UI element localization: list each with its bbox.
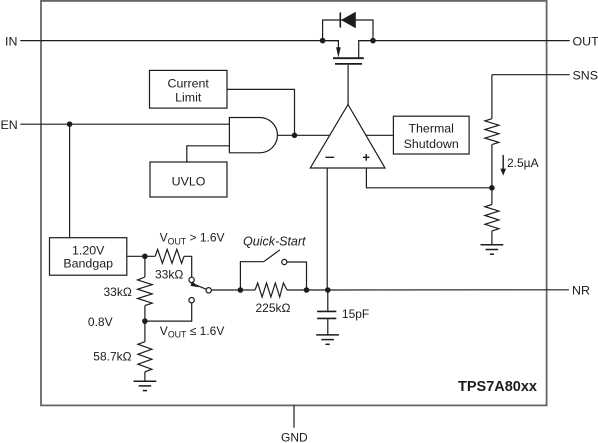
svg-text:0.8V: 0.8V (88, 315, 113, 329)
current source arrow 2.5uA (502, 155, 504, 170)
node QS left (238, 287, 244, 293)
pin IN (20, 40, 40, 42)
svg-text:IN: IN (5, 35, 17, 49)
resistor 33k upper (VOUT>1.6V path) (155, 249, 184, 263)
switch Quick-Start blade (264, 250, 280, 262)
wire to tap (491, 145, 493, 188)
svg-text:15pF: 15pF (342, 307, 369, 321)
wire body-diode left leg (323, 20, 373, 41)
node QS right (304, 287, 310, 293)
wire EN to AND gate input 1 (40, 123, 229, 125)
wire pole to NR node (212, 289, 241, 291)
svg-text:Current: Current (168, 76, 210, 90)
node 0.8V (142, 318, 148, 324)
svg-text:EN: EN (1, 118, 18, 132)
wire bandgap output (127, 255, 155, 257)
resistor 58.7k (144, 321, 146, 342)
wire quick-start branch right (287, 262, 307, 290)
wire UVLO to AND gate input 2 (187, 146, 230, 162)
ground under 15pF (316, 335, 339, 344)
resistor 33k lower-left (144, 256, 146, 277)
node AND output junction (292, 133, 298, 139)
wire error amp to Thermal Shutdown (366, 134, 394, 136)
wire EN branch down to bandgap (69, 124, 71, 238)
wire gate lead to error amp (347, 65, 349, 105)
svg-text:OUT: OUT (573, 35, 598, 49)
wire 0.8V node to switch throw 2 (145, 303, 192, 321)
pin OUT (547, 40, 570, 42)
AND gate U2 (229, 118, 277, 153)
switch SW1 wiper (191, 283, 206, 289)
svg-text:TPS7A80xx: TPS7A80xx (458, 379, 537, 395)
wire quick-start branch up left (240, 262, 263, 290)
transistor Q1 channel plate (333, 57, 364, 59)
resistor divider upper (485, 119, 499, 145)
wire resistor to switch throw 1 (184, 256, 192, 277)
wire OUT rail from pass FET (359, 40, 547, 42)
wire Current Limit to AND output node (227, 89, 295, 135)
wire NR line to pin (307, 289, 547, 291)
block 1.20V Bandgap (50, 238, 127, 276)
svg-text:SNS: SNS (573, 69, 598, 83)
svg-text:Thermal: Thermal (408, 122, 453, 136)
node bandgap output junction (142, 253, 148, 259)
node NR cap junction (325, 287, 331, 293)
svg-text:NR: NR (572, 284, 590, 298)
wire AND output to error amp (277, 134, 329, 136)
pin EN (20, 123, 40, 125)
switch SW1 throw 1 contact (189, 277, 194, 282)
transistor Q1 source arrowhead (336, 47, 341, 57)
body diode D1 (340, 12, 356, 28)
wire error amp minus input down to NR node (326, 168, 328, 290)
capacitor 15pF (327, 290, 329, 311)
block Current Limit (150, 70, 228, 108)
svg-text:2.5µA: 2.5µA (507, 156, 539, 170)
svg-text:1.20V: 1.20V (72, 244, 105, 258)
svg-text:Bandgap: Bandgap (63, 257, 113, 271)
svg-text:58.7kΩ: 58.7kΩ (93, 350, 131, 364)
svg-text:Limit: Limit (175, 90, 202, 104)
switch Quick-Start contact (282, 259, 287, 264)
svg-text:33kΩ: 33kΩ (155, 267, 183, 281)
switch SW1 pole contact (206, 288, 211, 293)
U1 minus symbol (325, 156, 334, 158)
svg-text:UVLO: UVLO (172, 174, 206, 188)
U1 plus symbol (363, 154, 370, 161)
svg-text:GND: GND (281, 430, 308, 443)
wire IN rail to pass FET (40, 40, 338, 42)
svg-text:33kΩ: 33kΩ (104, 285, 132, 299)
transistor Q1 source wire with arrow (323, 41, 339, 49)
pin SNS (547, 74, 570, 76)
pin GND (293, 405, 295, 427)
node EN branch (67, 121, 73, 127)
switch SW1 throw 2 contact (189, 298, 194, 303)
svg-text:225kΩ: 225kΩ (256, 301, 291, 315)
transistor Q1 gate plate (335, 63, 362, 65)
svg-text:Shutdown: Shutdown (404, 137, 459, 151)
block Thermal Shutdown (393, 116, 469, 154)
svg-text:Quick-Start: Quick-Start (243, 235, 306, 249)
ground under divider (481, 245, 504, 254)
pin NR (547, 289, 569, 291)
op-amp U1 error amplifier (310, 105, 385, 169)
wire error amp plus input to divider tap (366, 168, 492, 188)
ground under 58.7k (134, 381, 157, 390)
node divider tap (489, 185, 495, 191)
IC outline TPS7A80xx (41, 1, 547, 406)
node IN rail diode junction (320, 38, 326, 44)
resistor divider lower (491, 188, 493, 205)
wire SNS down (492, 74, 547, 76)
node OUT rail diode junction (370, 38, 376, 44)
resistor 225k (240, 289, 255, 291)
block UVLO (150, 162, 227, 197)
switch SW1 wiper arrowhead (191, 281, 199, 287)
transistor Q1 drain wire (359, 41, 373, 58)
